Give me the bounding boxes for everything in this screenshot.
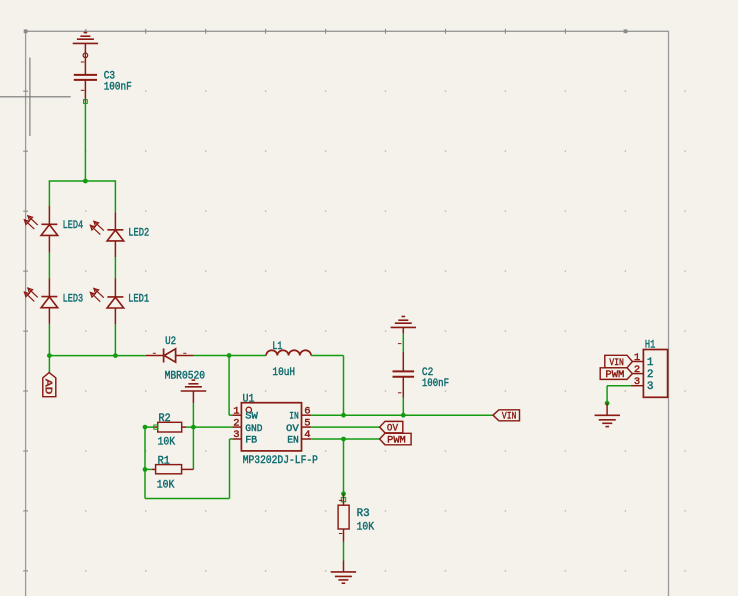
wire L1 to VIN net — [311, 356, 343, 416]
junction at LED1 — [113, 353, 118, 358]
junction IN-L1 — [341, 413, 346, 418]
global label PWM — [380, 433, 412, 446]
wire EN/PWM net — [311, 438, 379, 440]
junction top rail — [83, 179, 88, 184]
svg-text:1: 1 — [634, 352, 640, 364]
wire U2 to L1 — [194, 355, 266, 357]
capacitor C3 — [74, 55, 97, 102]
svg-text:3: 3 — [634, 376, 640, 388]
svg-text:PWM: PWM — [605, 369, 624, 381]
svg-text:2: 2 — [233, 417, 239, 429]
svg-text:LED2: LED2 — [128, 227, 149, 239]
junction IN-C2 — [401, 413, 406, 418]
svg-text:10uH: 10uH — [272, 367, 295, 379]
svg-text:1: 1 — [647, 357, 654, 369]
connector H1 body — [643, 350, 667, 398]
U1 pin 6 IN — [289, 405, 311, 422]
wire R2 left down to R1 left — [144, 427, 146, 469]
H1 pin 3 — [631, 376, 654, 393]
wire R3 to ground — [343, 542, 345, 561]
ground below R3 — [331, 561, 356, 584]
resistor R3 — [338, 494, 349, 542]
svg-text:U2: U2 — [165, 336, 176, 348]
svg-text:1: 1 — [233, 405, 239, 417]
resistor R2 — [154, 422, 182, 432]
svg-text:U1: U1 — [243, 394, 255, 406]
svg-text:FB: FB — [245, 435, 257, 447]
wire C3 to LED rail — [84, 102, 86, 181]
ground symbol above GND rail — [181, 380, 206, 403]
U1 pin 3 FB — [232, 429, 257, 446]
LED LED2 — [90, 221, 124, 241]
svg-text:100nF: 100nF — [422, 378, 449, 390]
svg-text:2: 2 — [634, 364, 640, 376]
junction H1 ground — [605, 401, 610, 406]
junction GND rail — [191, 425, 196, 430]
global label VIN at H1 — [605, 355, 633, 369]
svg-text:3: 3 — [647, 381, 654, 393]
H1 pin 2 — [632, 364, 653, 381]
wire to AD label — [48, 356, 50, 373]
junction R3 top — [341, 491, 346, 496]
svg-text:10K: 10K — [158, 437, 176, 449]
global label AD — [42, 373, 56, 397]
svg-text:IN: IN — [289, 411, 299, 423]
wire EN net down to R3 — [343, 439, 345, 494]
wire LED top rail — [49, 180, 115, 182]
svg-text:L1: L1 — [272, 341, 282, 353]
wire H1 pin 3 to ground — [607, 386, 631, 404]
svg-text:3: 3 — [233, 429, 239, 441]
power flag ground above C3 — [73, 33, 98, 56]
capacitor C2 — [393, 352, 415, 398]
svg-text:10K: 10K — [357, 522, 375, 534]
resistor R1 — [152, 465, 194, 474]
svg-text:VIN: VIN — [502, 411, 516, 423]
wire LED cathode rail — [49, 355, 145, 357]
svg-text:R3: R3 — [357, 508, 370, 520]
wire FB net — [145, 439, 232, 499]
IC U1 MP3202DJ-LF-P body — [241, 403, 301, 451]
svg-text:GND: GND — [245, 423, 262, 435]
global label VIN — [493, 410, 520, 423]
pin-end marker R2 left — [154, 425, 158, 429]
tiny pin number dashes — [81, 62, 402, 534]
global label OV — [380, 421, 403, 434]
ground below H1 — [595, 403, 620, 426]
wire LED4 to LED3 — [48, 235, 50, 296]
wire LED1 to node — [114, 308, 116, 356]
wire to LED2 — [114, 180, 116, 230]
svg-text:2: 2 — [647, 369, 654, 381]
svg-text:PWM: PWM — [387, 434, 406, 446]
wire GND rail down to R1 — [192, 427, 194, 469]
svg-text:R2: R2 — [159, 413, 171, 425]
H1 pin 1 — [632, 352, 654, 369]
wire left of R1 — [145, 468, 152, 470]
wire left of R2 — [145, 426, 154, 428]
C3 value labels — [104, 71, 132, 94]
wire C2 to IN net — [402, 398, 404, 416]
svg-text:R1: R1 — [158, 455, 171, 467]
svg-text:SW: SW — [245, 411, 258, 423]
junction R1 left — [143, 467, 148, 472]
svg-text:OV: OV — [286, 423, 300, 435]
svg-text:6: 6 — [304, 405, 310, 417]
svg-text:100nF: 100nF — [104, 82, 132, 94]
inductor L1 — [266, 350, 311, 355]
junction EN-R3 — [341, 437, 346, 442]
wire SW net down to U1 pin 1 — [229, 356, 232, 416]
LED LED1 — [90, 288, 124, 308]
U1 pin1 marker circle — [246, 407, 251, 412]
LED LED3 — [24, 288, 58, 308]
wire end marker R3 top — [341, 497, 345, 501]
svg-text:4: 4 — [304, 429, 310, 441]
svg-text:EN: EN — [287, 435, 299, 447]
diode U2 MBR0520 — [146, 349, 194, 363]
global label PWM at H1 — [600, 368, 632, 381]
junction at LED3 — [47, 353, 52, 358]
svg-text:10K: 10K — [157, 480, 175, 492]
svg-text:MP3202DJ-LF-P: MP3202DJ-LF-P — [243, 455, 319, 467]
svg-text:C2: C2 — [422, 367, 433, 379]
svg-text:LED4: LED4 — [63, 220, 84, 232]
wire ground to GND rail — [192, 403, 194, 427]
pin-end circle at C3 top — [83, 53, 88, 58]
junction SW node — [227, 353, 232, 358]
LED LED4 — [24, 215, 58, 235]
wire LED2 to LED1 — [114, 241, 116, 297]
U1 pin 1 SW — [232, 405, 258, 422]
wire LED3 to node — [48, 308, 50, 356]
ground above C2 — [391, 317, 416, 334]
wire to LED4 — [48, 180, 50, 224]
wire end marker below C3 — [84, 100, 88, 104]
wire OV net — [311, 426, 379, 428]
junction R2 left — [143, 425, 148, 430]
U1 pin 5 OV — [286, 417, 311, 435]
wire ground to C2 — [402, 334, 404, 352]
U1 pin 2 GND — [232, 417, 262, 435]
wire GND rail R2 to U1 pin 2 — [182, 426, 233, 428]
svg-text:MBR0520: MBR0520 — [165, 371, 206, 383]
svg-text:LED3: LED3 — [63, 294, 84, 306]
svg-text:H1: H1 — [645, 340, 656, 352]
U1 pin 4 EN — [287, 429, 311, 446]
svg-text:5: 5 — [304, 417, 310, 429]
svg-text:AD: AD — [42, 379, 54, 395]
wire IN net to VIN label — [311, 414, 493, 416]
svg-text:LED1: LED1 — [128, 294, 149, 306]
